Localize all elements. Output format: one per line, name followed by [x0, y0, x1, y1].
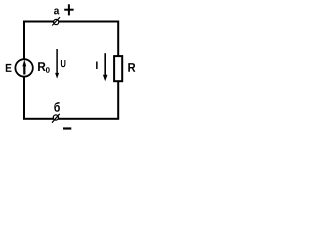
- current arrow I: [103, 53, 108, 81]
- node label a: [54, 9, 59, 15]
- label U: [61, 60, 66, 67]
- voltage arrow U: [55, 49, 59, 79]
- node label b: [54, 102, 60, 112]
- wire loop a-R-b-E: [24, 22, 118, 119]
- plus sign: [64, 4, 73, 15]
- label R: [128, 63, 135, 72]
- resistor R: [114, 56, 122, 81]
- EMF arrow inside source: [22, 60, 26, 75]
- label I: [96, 62, 98, 70]
- minus sign: [63, 127, 71, 129]
- label E: [6, 64, 12, 72]
- EMF source E circle: [15, 59, 32, 76]
- label R0: [38, 62, 50, 73]
- terminal a: [52, 17, 60, 25]
- terminal b: [52, 114, 60, 123]
